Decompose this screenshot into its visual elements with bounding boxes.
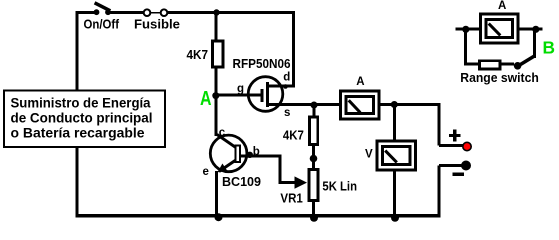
svg-text:g: g <box>237 83 244 95</box>
wire: top rail between switch and fuse <box>111 11 144 14</box>
power source box: Suministro de Energia <box>4 91 165 148</box>
svg-text:c: c <box>219 127 226 139</box>
wire: top rail left segment to switch <box>76 11 95 14</box>
svg-text:B: B <box>543 38 556 58</box>
svg-text:A: A <box>356 76 364 88</box>
resistor R3 (range shunt) <box>478 59 502 70</box>
svg-text:d: d <box>283 72 290 84</box>
svg-text:de Conducto principal: de Conducto principal <box>11 111 153 126</box>
wire: + branch corner down and right <box>439 105 463 146</box>
wire: R2 to VR1 with junction dot <box>310 146 318 168</box>
wire: left vertical from supply box to bottom rail <box>76 146 79 217</box>
voltmeter M2 V <box>365 140 417 172</box>
transistor Q2 BC109 <box>203 127 262 189</box>
ammeter M1 A <box>339 76 381 121</box>
svg-text:VR1: VR1 <box>280 191 302 206</box>
switch S1 On/Off <box>84 3 120 32</box>
wire: voltmeter top lead <box>393 105 396 141</box>
node: junction ammeter / voltmeter <box>391 101 398 108</box>
wire: emitter vertical to bottom rail <box>215 171 218 216</box>
svg-text:On/Off: On/Off <box>84 16 120 31</box>
node B label <box>543 38 556 58</box>
node: junction source wire / R2 branch <box>311 102 318 109</box>
wire: source wire from Q1 to ammeter <box>283 103 339 106</box>
wire: from top junction down to R1 <box>215 13 218 41</box>
wire: left vertical from top rail down to supply box <box>76 11 79 91</box>
wire: bottom rail <box>76 214 441 218</box>
svg-text:4K7: 4K7 <box>187 47 209 62</box>
terminal + (positive output) <box>449 130 471 151</box>
svg-text:A: A <box>200 88 212 110</box>
svg-text:o Batería recargable: o Batería recargable <box>11 125 146 140</box>
wire: range switch bottom wire <box>464 63 514 66</box>
svg-text:s: s <box>284 107 290 119</box>
wire: voltmeter bottom lead <box>393 172 396 217</box>
svg-text:V: V <box>365 148 373 160</box>
wire: gate lead from node A to Q1 <box>216 94 248 97</box>
node A <box>200 88 219 110</box>
fuse F1 Fusible <box>134 9 180 31</box>
wire: drain vertical from top rail <box>292 11 295 86</box>
wire: junction down to R2 <box>312 105 315 116</box>
wire: top rail right segment <box>168 11 296 14</box>
label: Range switch <box>460 70 539 85</box>
svg-text:5K Lin: 5K Lin <box>322 178 357 193</box>
wire: VR1 bottom to rail with junction dot <box>310 202 318 222</box>
wire: from R1 down through node A to BC109 collector <box>215 69 218 137</box>
svg-text:RFP50N06: RFP50N06 <box>233 56 291 71</box>
node: junction of top rail and R1 branch <box>213 9 219 15</box>
MOSFET U1 RFP50N06 <box>233 56 296 119</box>
wire: range switch meter left lead with junction dot <box>456 26 480 64</box>
svg-text:4K7: 4K7 <box>283 128 304 143</box>
wire: ammeter right lead to + branch <box>381 103 441 106</box>
svg-text:A: A <box>498 0 506 12</box>
switch S2 (range selector) <box>514 56 535 70</box>
resistor R2 4K7 <box>283 116 319 147</box>
range switch sub-circuit: meter A <box>479 0 520 45</box>
node: junction emitter / bottom rail <box>215 213 223 221</box>
potentiometer VR1 5K Lin <box>280 168 357 206</box>
wire: range switch meter right lead with junction dot <box>520 26 543 58</box>
node: junction voltmeter / bottom rail <box>391 214 399 222</box>
svg-text:Suministro de Energía: Suministro de Energía <box>11 96 151 111</box>
terminal - (negative output) with wires <box>439 161 471 218</box>
svg-text:Fusible: Fusible <box>134 16 180 31</box>
resistor R1 4K7 <box>187 40 225 69</box>
wire: base wire from Q2 to VR1 wiper arrow <box>241 156 297 182</box>
svg-text:Range switch: Range switch <box>460 70 539 85</box>
svg-text:e: e <box>203 166 209 178</box>
svg-text:BC109: BC109 <box>222 174 261 189</box>
